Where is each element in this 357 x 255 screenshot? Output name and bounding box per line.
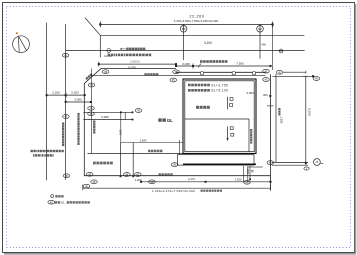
drain basin 1 [200, 72, 203, 75]
svg-text:7,500: 7,500 [236, 61, 244, 65]
level marker sw 2 [91, 180, 98, 184]
svg-text:7,530: 7,530 [235, 177, 242, 181]
parking label [93, 162, 96, 165]
level marker west 1 [88, 83, 95, 87]
left road west edge [46, 23, 48, 181]
application building label [196, 106, 199, 109]
level marker chamfer [102, 70, 109, 74]
east setback line [275, 74, 277, 162]
level marker agreement nw [170, 78, 177, 82]
level marker se [267, 161, 274, 165]
eave dim extension vertical [179, 140, 181, 155]
south boundary line [84, 175, 270, 177]
parking dim band lower line [83, 119, 132, 121]
parking divider a [120, 143, 122, 177]
door symbol lower box a [230, 127, 233, 130]
svg-text:9,070: 9,070 [128, 65, 136, 69]
step bottom line [248, 166, 263, 168]
building inner wall [185, 81, 254, 152]
svg-text:2,250: 2,250 [52, 91, 60, 95]
north arrow tip mark [16, 32, 18, 34]
left dim line 3000 [66, 101, 91, 103]
top road north edge [100, 34, 304, 36]
right vertical dim line [303, 76, 309, 163]
level marker s 2 [134, 173, 141, 177]
sheet shadow bottom [4, 253, 356, 255]
left dim line 2250+2250 [47, 93, 85, 98]
svg-text:1,505: 1,505 [280, 117, 284, 124]
grid marker circle 2 [257, 24, 264, 58]
right benchmark circle [314, 159, 321, 166]
svg-text:GL+5,100: GL+5,100 [211, 89, 228, 93]
door symbol upper line [227, 97, 229, 109]
svg-text:450: 450 [262, 43, 267, 47]
top road center line [66, 49, 305, 51]
left road center line [65, 24, 67, 180]
agreement line label (north) [144, 73, 146, 75]
building interior wall vertical [248, 119, 250, 152]
door symbol upper box b [230, 104, 233, 107]
level marker ne 1 [263, 69, 270, 73]
right leader double line upper [272, 161, 308, 163]
legend drain text [55, 195, 57, 197]
right leader end blob [305, 162, 307, 164]
sheet shadow right [355, 4, 357, 254]
south agreement label [148, 150, 151, 153]
drain basin 3 [252, 72, 255, 75]
north boundary west part [101, 68, 176, 70]
level marker s 1 [124, 173, 131, 177]
terrace edge thick line [183, 163, 256, 165]
left road name text line2 [33, 154, 34, 156]
north-east dim line [176, 64, 271, 69]
benchmark on road center 1 [107, 49, 111, 53]
ne corner extension line [271, 24, 273, 70]
building interior floor line [185, 118, 249, 120]
svg-text:9,180: 9,180 [307, 108, 311, 116]
svg-text:2,250: 2,250 [71, 91, 79, 95]
level marker nw [173, 70, 180, 74]
parking dim band verticals [124, 112, 126, 119]
road edge vertical at corner [99, 35, 101, 57]
benchmark on left road center [62, 53, 69, 57]
level marker e top [313, 77, 320, 81]
svg-text:GL: GL [61, 201, 65, 205]
parking divider tick a [120, 175, 122, 177]
level marker s dim 2 [149, 180, 156, 184]
building outer wall [183, 79, 256, 154]
parking divider b [132, 143, 134, 177]
sewer arrow [198, 64, 201, 68]
road name text [108, 54, 111, 57]
svg-text:3000: 3000 [119, 130, 122, 136]
ne benchmark leader [283, 71, 306, 73]
level marker west 2 [88, 106, 95, 110]
svg-text:3,100: 3,100 [204, 41, 212, 45]
level marker sw 3 [83, 184, 90, 188]
level marker s dim 3 [244, 180, 251, 184]
bottom dim line [141, 181, 271, 183]
site level marker [135, 109, 142, 113]
west agreement rotated label [93, 121, 95, 123]
small dim tick 2 [267, 105, 274, 107]
level mark equals [251, 169, 254, 171]
eave outline rect [177, 155, 254, 165]
existing road height text [159, 173, 161, 175]
level marker terrace left [171, 163, 178, 167]
north boundary double line upper [176, 71, 266, 73]
door symbol lower arrow [226, 138, 228, 140]
level marker west 3 [88, 112, 95, 116]
parking divider tick b [132, 175, 134, 177]
step extension line b [247, 166, 249, 182]
svg-text:1505: 1505 [246, 169, 249, 175]
west boundary line [83, 83, 85, 175]
road center label arrow [120, 48, 126, 50]
parking depth dim line [121, 142, 184, 144]
road level marker mid [63, 115, 70, 119]
west agreement line [91, 69, 93, 154]
level marker ne 3 [276, 70, 283, 74]
veranda rotated label [250, 129, 252, 131]
chamfer rotated label [85, 73, 92, 80]
svg-text:2 2,8 6 0: 2 2,8 6 0 [130, 60, 140, 63]
svg-text:K2: K2 [258, 27, 262, 31]
north boundary dim line [99, 62, 176, 67]
svg-text:K3: K3 [182, 27, 186, 31]
svg-text:6,000: 6,000 [101, 115, 109, 119]
parking dim band upper line [83, 111, 132, 113]
door symbol lower line [227, 127, 229, 141]
svg-text:1,260+3,470+7,530=22,260: 1,260+3,470+7,530=22,260 [152, 189, 195, 193]
svg-text:3,470+3,545+7,530+3,045=22,260: 3,470+3,545+7,530+3,045=22,260 [174, 19, 219, 23]
svg-text:22,260: 22,260 [189, 15, 204, 19]
door symbol lower box b [231, 133, 234, 136]
svg-text:GL+3,750: GL+3,750 [211, 83, 228, 87]
north boundary double line lower [92, 74, 266, 76]
door symbol upper box a [230, 98, 233, 101]
right leader line top [272, 75, 313, 77]
right leader double line lower [272, 164, 308, 166]
benchmark on road center 2 [279, 49, 283, 53]
small dim tick [269, 95, 271, 97]
chamfer corner cut [84, 69, 101, 84]
legend level text [55, 201, 57, 203]
building max heights text 1 [188, 84, 191, 87]
legend level ellipse [48, 200, 55, 204]
south agreement line [88, 152, 184, 154]
legend drain circle [51, 195, 54, 198]
bottom overall dim line [83, 185, 271, 191]
sewer note text [200, 60, 203, 63]
design GL label [158, 118, 161, 121]
svg-text:GL: GL [167, 118, 173, 123]
left road center rotated label [62, 123, 64, 125]
level marker e low [304, 167, 309, 170]
svg-text:3,000: 3,000 [246, 91, 254, 95]
road corner diagonal [85, 18, 100, 36]
level marker s road end [63, 174, 70, 178]
grid marker circle 1 [180, 24, 187, 60]
step extension line a [242, 166, 244, 182]
step extension line c [249, 166, 251, 179]
north arrow [13, 36, 30, 53]
svg-text:1,643: 1,643 [140, 138, 147, 142]
building max heights text 2 [188, 89, 191, 92]
svg-text:300: 300 [263, 93, 268, 97]
east setback rotated text [278, 108, 280, 110]
level marker ne 2 [263, 78, 270, 82]
svg-text:2,045: 2,045 [182, 62, 190, 66]
top overall dimension line [100, 22, 272, 28]
level marker sw 1 [86, 172, 93, 176]
svg-text:3,000: 3,000 [74, 97, 82, 101]
east boundary line [269, 74, 271, 190]
svg-text:1,260: 1,260 [135, 178, 142, 182]
drain basin 2 [232, 72, 235, 75]
west boundary rotated label [77, 113, 79, 115]
svg-text:2,470: 2,470 [188, 177, 195, 181]
left road name text line1 [31, 150, 33, 152]
